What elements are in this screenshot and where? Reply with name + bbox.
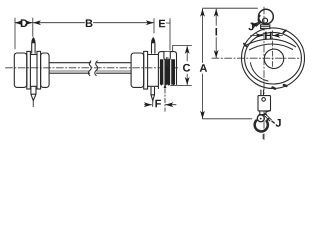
dim C top extension	[173, 45, 192, 51]
rod inner contour right	[97, 70, 132, 72]
bottom hook tip	[267, 119, 269, 121]
dim F line left arrow	[145, 104, 152, 106]
dim B line right part	[94, 22, 154, 24]
label I	[216, 28, 218, 36]
right body top pin	[152, 38, 155, 53]
spring drum housing (side view) outline	[158, 52, 176, 89]
top hook ring inner hole	[263, 18, 268, 23]
dim E left extension (pin line)	[153, 19, 155, 34]
right top pin dark tip	[152, 38, 154, 43]
right bottom pin	[151, 87, 155, 100]
top hook nut block	[261, 25, 270, 29]
label H	[265, 32, 271, 40]
left bottom pin	[31, 87, 36, 100]
label F	[155, 100, 161, 108]
break symbol left	[88, 61, 91, 76]
dim D extension line left	[14, 18, 16, 49]
left body: hub channel bottom edge	[30, 85, 37, 87]
label B	[86, 19, 93, 27]
bracket saddle arc lower	[250, 44, 293, 50]
cable neck below drum	[261, 90, 264, 95]
cable exit triangle	[164, 84, 167, 88]
front view: hub circle	[264, 49, 283, 68]
rod inner contour left	[49, 70, 90, 72]
dim D line with arrows	[15, 22, 20, 24]
top hook latch mark	[256, 23, 260, 26]
label J top	[248, 23, 253, 31]
wire: side-view horizontal centerline	[6, 67, 179, 69]
front view horizontal centerline	[212, 57, 301, 59]
front view vertical centerline (hook axis)	[263, 7, 265, 140]
label D	[21, 19, 28, 27]
front view: drum outer rim	[242, 28, 305, 89]
dim D/B shared extension line	[32, 18, 34, 37]
bottom hook eye hole	[260, 118, 262, 120]
dim E right extension	[169, 19, 171, 51]
left body: left flange plate	[27, 51, 31, 89]
right body: hub channel bottom edge	[148, 85, 159, 87]
right body: left flange plate	[144, 51, 148, 89]
dim C line lower	[186, 74, 188, 85]
dim I line upper	[215, 9, 217, 26]
front view: drum inner rim	[245, 32, 302, 84]
bracket right tab	[283, 30, 286, 32]
wire: connecting rod left segment	[49, 63, 91, 73]
left body: right lobe	[41, 53, 50, 87]
nut mid line	[261, 26, 270, 28]
label C	[183, 64, 190, 72]
latch pivot marks	[266, 111, 274, 123]
left top pin dark tip	[32, 38, 34, 43]
spring spiral arc lower-left	[250, 63, 268, 81]
dim A bottom extension line	[203, 118, 252, 120]
bottom hook eye	[257, 115, 264, 122]
right bottom pin needle	[152, 101, 154, 107]
cable end fitting rectangle	[258, 96, 271, 111]
dim E right dash	[166, 22, 170, 24]
coil white slivers	[164, 60, 171, 85]
label J bottom	[276, 119, 281, 127]
swivel neck	[259, 111, 267, 115]
left bottom pin needle	[32, 101, 34, 107]
dim C bottom extension	[171, 85, 192, 87]
left body: right flange plate	[37, 51, 41, 89]
left body: hub channel top edge	[30, 54, 37, 56]
band lug bottom right 1	[273, 88, 276, 89]
safety latch	[263, 113, 272, 121]
top hook curl detail	[258, 16, 259, 24]
fitting hole	[262, 98, 266, 102]
bottom centerline dashes	[262, 134, 264, 140]
J top leader arrow	[254, 22, 259, 25]
dim I line lower	[215, 38, 217, 58]
dim A line lower	[202, 74, 204, 118]
dim F right arrow	[166, 104, 176, 106]
dim H right arrow	[273, 35, 283, 37]
bracket left end tab	[244, 44, 247, 47]
label E	[159, 20, 165, 28]
label A	[200, 64, 207, 72]
right body: hub channel top edge	[148, 54, 159, 56]
top hook ring outer	[259, 9, 274, 24]
drum coil dark mass	[160, 59, 175, 85]
dim C line upper	[186, 46, 188, 61]
break symbol right	[95, 61, 98, 76]
bottom hook bowl	[255, 121, 268, 132]
dim B line left part	[33, 22, 84, 24]
cable centerline below drum	[164, 89, 166, 112]
band lug bottom right 2	[284, 85, 287, 86]
bracket saddle arc upper	[245, 39, 296, 47]
dim A top extension line	[203, 7, 258, 9]
drum cable groove notch	[164, 52, 170, 60]
left balancer body: left lobe	[14, 53, 26, 87]
hub vertical center dash	[272, 31, 274, 69]
left body top pin (hook pin)	[32, 38, 35, 53]
dim H left arrow	[251, 35, 264, 37]
right balancer body: left lobe	[131, 53, 144, 87]
dim A line upper	[202, 9, 204, 63]
cable end in groove	[166, 58, 168, 66]
wire: connecting rod right segment	[97, 63, 132, 73]
